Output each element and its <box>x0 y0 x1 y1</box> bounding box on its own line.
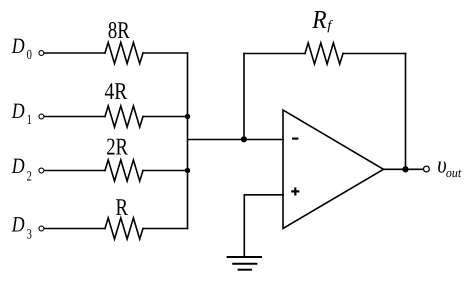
svg-text:D: D <box>11 153 25 178</box>
svg-text:R: R <box>116 195 128 221</box>
ground <box>227 257 262 270</box>
wire 4R to bus <box>143 116 188 118</box>
junction dot bus-D1 <box>185 114 190 119</box>
svg-text:8R: 8R <box>108 18 130 44</box>
wire bus to inverting input <box>188 139 284 141</box>
svg-text:2R: 2R <box>106 134 128 160</box>
wire D2 to 2R <box>45 170 105 172</box>
wire R to bus <box>143 228 188 230</box>
wire inverting node up to feedback <box>243 54 245 140</box>
svg-text:f: f <box>327 17 334 32</box>
wire output <box>384 168 423 170</box>
svg-text:4R: 4R <box>105 79 128 105</box>
label vout <box>437 153 461 181</box>
input terminal D2 <box>39 168 44 173</box>
svg-text:D: D <box>11 33 25 58</box>
input terminal D3 <box>39 226 44 231</box>
input terminal D0 <box>39 51 44 56</box>
wire summing bus <box>187 53 189 229</box>
wire D3 to R <box>45 228 105 230</box>
svg-text:R: R <box>311 5 326 34</box>
label D1 <box>11 98 32 128</box>
label D3 <box>11 211 32 242</box>
wire Rf to right corner <box>343 53 406 55</box>
svg-text:out: out <box>446 165 462 180</box>
wire feedback down to output <box>405 54 407 170</box>
label D0 <box>11 33 32 63</box>
input terminal D1 <box>39 114 44 119</box>
op-amp plus sign <box>291 187 299 195</box>
junction dot inverting node <box>241 136 247 142</box>
junction dot output node <box>402 166 408 172</box>
resistor Rf <box>305 43 343 64</box>
wire noninverting input to ground <box>244 195 283 257</box>
op-amp minus sign <box>292 138 298 140</box>
svg-text:2: 2 <box>27 169 32 184</box>
resistor 4R <box>105 106 143 127</box>
svg-text:1: 1 <box>27 113 32 128</box>
wire top to Rf <box>244 53 305 55</box>
svg-text:3: 3 <box>27 228 32 243</box>
op-amp U1 <box>283 110 384 229</box>
junction dot bus-D2 <box>185 168 190 173</box>
wire D0 to 8R <box>45 52 105 54</box>
output terminal <box>424 166 430 172</box>
resistor R <box>105 218 143 239</box>
svg-text:0: 0 <box>27 48 32 63</box>
wire 2R to bus <box>143 170 188 172</box>
svg-text:D: D <box>11 98 25 123</box>
resistor 8R <box>105 42 143 63</box>
wire D1 to 4R <box>45 116 105 118</box>
wire 8R to bus <box>143 52 188 54</box>
label D2 <box>11 153 32 184</box>
label Rf <box>311 5 334 34</box>
svg-text:D: D <box>11 211 25 236</box>
resistor 2R <box>105 160 143 181</box>
